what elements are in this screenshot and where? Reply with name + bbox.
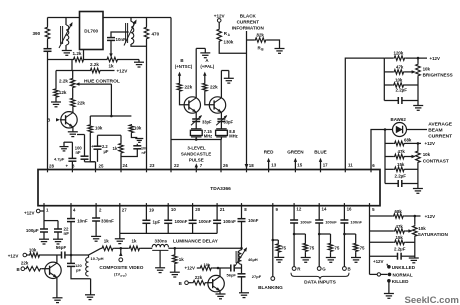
svg-text:B: B — [17, 267, 20, 272]
svg-text:B: B — [348, 267, 351, 272]
svg-text:+: + — [91, 144, 94, 149]
wire 10nF top hook — [111, 32, 129, 38]
svg-text:10k: 10k — [134, 126, 142, 131]
potentiometer 10k BRIGHTNESS — [416, 63, 421, 77]
wire — [90, 279, 92, 295]
transistor Q2 NTSC — [184, 97, 200, 113]
wire — [114, 247, 128, 249]
svg-text:GREEN: GREEN — [287, 150, 304, 155]
wire Q5 emitter — [219, 291, 221, 294]
wire hue pot top — [72, 71, 74, 78]
input arrow A — [204, 74, 206, 83]
resistor 75 G — [319, 233, 330, 235]
wire — [131, 134, 137, 138]
svg-text:HUE CONTROL: HUE CONTROL — [84, 78, 120, 84]
capacitor 100nF right — [136, 144, 138, 146]
svg-text:DATA INPUTS: DATA INPUTS — [304, 279, 336, 285]
terminal BLANKING — [271, 277, 275, 281]
pin stub — [167, 203, 169, 206]
svg-text:SATURATION: SATURATION — [418, 232, 449, 237]
wire — [343, 223, 345, 267]
node wire pin18 — [246, 31, 248, 170]
pin stub — [95, 203, 97, 206]
svg-text:1k: 1k — [132, 238, 137, 243]
pin stub — [145, 203, 147, 206]
svg-text:+12V: +12V — [425, 141, 436, 146]
pin stub — [344, 170, 346, 173]
svg-text:TDA3366: TDA3366 — [210, 186, 231, 192]
wire pin22 vertical — [170, 18, 172, 170]
capacitor 56pF drive2 — [230, 265, 232, 272]
resistor 15k saturation — [370, 241, 394, 243]
transistor Q5 — [208, 275, 224, 291]
ground 4.7uF — [63, 142, 65, 147]
ground row1 — [138, 60, 140, 63]
wire — [47, 40, 49, 48]
resistor 10k brightness — [384, 84, 393, 86]
svg-text:nF: nF — [64, 231, 70, 236]
capacitor 2.2uF brightness — [384, 100, 398, 102]
svg-text:SANDCASTLE: SANDCASTLE — [181, 152, 211, 157]
svg-text:10nF: 10nF — [248, 218, 259, 223]
svg-text:100nF: 100nF — [199, 219, 212, 224]
wire pin2 — [95, 206, 97, 218]
svg-text:22k: 22k — [185, 84, 193, 89]
resistor 47k contrast — [385, 156, 394, 158]
saturation right rail — [414, 216, 416, 225]
wire Q1 collector — [72, 108, 74, 113]
wire pin24 — [120, 154, 122, 170]
wire Q2 emitter — [195, 112, 197, 118]
small ground — [135, 138, 143, 140]
svg-text:PULSE: PULSE — [189, 158, 204, 163]
svg-text:22k: 22k — [195, 275, 203, 280]
svg-text:B: B — [179, 281, 182, 286]
svg-text:15k: 15k — [397, 162, 405, 167]
capacitor 100nF G — [315, 219, 323, 221]
wire pin10 — [167, 206, 169, 220]
crystal 8.8MHz — [216, 128, 227, 130]
svg-text:24: 24 — [123, 163, 128, 168]
svg-text:47k: 47k — [398, 149, 406, 154]
svg-text:2.2µF: 2.2µF — [394, 246, 406, 251]
svg-text:100µF: 100µF — [26, 228, 39, 233]
wire — [95, 221, 97, 236]
wire pin26 — [220, 140, 222, 170]
capacitor 120pF — [70, 255, 72, 263]
svg-text:BRIGHTNESS: BRIGHTNESS — [423, 72, 453, 77]
transistor Q1 hue — [61, 112, 77, 128]
svg-text:27: 27 — [122, 208, 127, 213]
resistor 75 B — [344, 233, 355, 235]
wire Q1 emitter — [72, 127, 74, 132]
switch UNKILLED — [387, 265, 391, 269]
resistor 10k drive2 — [199, 266, 212, 271]
ground contrast — [413, 188, 423, 190]
svg-text:130k: 130k — [224, 40, 234, 45]
svg-text:10nF: 10nF — [77, 219, 88, 224]
pin13 arrow — [268, 161, 270, 170]
resistor 390 — [45, 26, 50, 40]
terminal B — [343, 267, 347, 271]
wire — [205, 92, 214, 105]
svg-text:100nF: 100nF — [300, 219, 312, 224]
ground Q5 — [216, 293, 226, 295]
svg-text:11: 11 — [348, 163, 353, 168]
resistor 22k drive2 — [192, 280, 207, 285]
svg-text:46µH: 46µH — [248, 257, 258, 262]
variable inductor L2 — [130, 18, 132, 22]
pin stub — [220, 170, 222, 173]
wire — [71, 266, 91, 278]
variable inductor L1 — [65, 18, 67, 26]
row2 riser — [71, 60, 73, 71]
wire — [65, 45, 67, 50]
svg-text:DL700: DL700 — [84, 29, 98, 34]
svg-text:nF: nF — [76, 150, 82, 155]
svg-text:CURRENT: CURRENT — [428, 134, 452, 140]
svg-text:1k: 1k — [113, 146, 118, 151]
wire pin8 — [241, 206, 243, 219]
ground 27pF — [239, 292, 249, 294]
svg-text:47k: 47k — [396, 64, 404, 69]
resistor 470 — [146, 18, 148, 27]
resistor 22k hue — [72, 89, 74, 98]
svg-text:BLUE: BLUE — [314, 150, 327, 155]
svg-text:330ns: 330ns — [155, 238, 168, 243]
wire pin 16 — [343, 206, 345, 220]
trimmer capacitor 33pF 2 — [217, 118, 225, 120]
svg-text:+12V: +12V — [430, 56, 441, 61]
ground 75 R — [304, 252, 306, 257]
svg-text:(+PAL): (+PAL) — [200, 64, 214, 69]
wire left column top — [47, 18, 49, 27]
capacitor 100nF left — [77, 134, 85, 136]
inductor 10.7uH — [88, 255, 90, 258]
svg-text:2.2µF: 2.2µF — [395, 173, 407, 178]
wire RA to node — [219, 43, 246, 54]
svg-text:14: 14 — [322, 207, 327, 212]
pin stub — [241, 203, 243, 206]
svg-text:56pF: 56pF — [56, 245, 67, 250]
ground 75 blanking — [277, 253, 279, 257]
svg-text:10k: 10k — [418, 226, 426, 231]
capacitor 10nF — [107, 37, 115, 39]
svg-text:CONTRAST: CONTRAST — [423, 158, 449, 163]
svg-text:100nF: 100nF — [223, 219, 236, 224]
resistor 68k saturation — [370, 215, 393, 217]
wire — [293, 223, 295, 267]
wire — [47, 51, 49, 59]
svg-text:27pF: 27pF — [252, 274, 262, 279]
pin stub — [370, 170, 372, 173]
switch KILLED — [387, 279, 391, 283]
resistor 68k contrast — [385, 142, 394, 144]
svg-text:19: 19 — [149, 208, 154, 213]
inner loop top — [98, 134, 122, 136]
wire — [85, 59, 107, 61]
wire — [97, 149, 99, 162]
wire to +12V — [406, 57, 427, 59]
transistor Q4 — [45, 262, 61, 278]
row1 wire — [48, 59, 73, 61]
resistor 22k PAL — [203, 83, 208, 93]
svg-text:470: 470 — [152, 32, 160, 37]
svg-text:21: 21 — [220, 207, 225, 212]
wire pin1 — [43, 206, 45, 221]
svg-text:+12V: +12V — [8, 254, 19, 259]
wire pin 12 — [293, 206, 295, 220]
svg-text:10: 10 — [171, 207, 176, 212]
ground 10.7uH — [85, 294, 95, 296]
ground osc2 — [228, 71, 230, 79]
resistor 1k lum1 — [101, 246, 114, 251]
decoupling rail — [120, 232, 217, 234]
svg-text:COMPOSITE VIDEO: COMPOSITE VIDEO — [99, 265, 143, 270]
svg-text:56pF: 56pF — [227, 272, 237, 277]
ground 100uF — [43, 232, 45, 239]
svg-text:330nF: 330nF — [101, 219, 114, 224]
svg-text:390: 390 — [33, 31, 41, 36]
svg-text:75: 75 — [360, 245, 365, 250]
svg-text:NORMAL: NORMAL — [393, 272, 413, 277]
resistor 47k saturation — [370, 230, 394, 232]
svg-text:+: + — [66, 163, 69, 168]
svg-text:+12V: +12V — [24, 210, 35, 215]
trimmer resistor 1k — [106, 57, 119, 62]
svg-text:22: 22 — [174, 163, 179, 168]
resistor 1k lum2 — [128, 246, 140, 251]
svg-text:100nF: 100nF — [325, 219, 337, 224]
ground switch — [384, 293, 394, 295]
wire top rail — [48, 17, 80, 19]
wire — [267, 40, 280, 48]
wire — [195, 122, 197, 129]
wire diode out — [407, 129, 428, 131]
svg-text:1k: 1k — [179, 257, 184, 262]
potentiometer 2.2k HUE — [70, 78, 75, 89]
terminal G — [317, 267, 321, 271]
svg-text:MHz: MHz — [204, 134, 212, 139]
svg-text:+12V: +12V — [117, 68, 129, 73]
svg-text:+12V: +12V — [373, 259, 384, 264]
resistor 75 R — [294, 233, 305, 235]
row2 wire — [56, 70, 90, 72]
wire pin27 — [119, 206, 121, 234]
svg-text:BLANKING: BLANKING — [258, 285, 283, 290]
svg-text:10.7µH: 10.7µH — [91, 256, 104, 261]
resistor 120k — [384, 57, 393, 59]
resistor 75 blanking — [273, 239, 279, 241]
pin stub — [320, 170, 322, 173]
wire Q3 collector — [220, 71, 222, 98]
capacitor under 390 — [44, 48, 52, 50]
svg-text:33pF: 33pF — [224, 120, 234, 125]
svg-text:10k: 10k — [204, 262, 211, 267]
wire — [167, 223, 169, 233]
capacitor 330nF — [92, 217, 100, 219]
resistor 47k brightness — [384, 71, 393, 73]
pin7 arrow — [195, 166, 197, 170]
wire pin20 — [192, 206, 194, 220]
terminal R — [292, 267, 296, 271]
svg-text:10k: 10k — [395, 78, 403, 83]
resistor 1k pin24 — [120, 135, 122, 142]
svg-text:22k: 22k — [77, 100, 85, 105]
ground Q1 — [68, 131, 78, 133]
svg-text:1µF: 1µF — [153, 220, 161, 225]
capacitor 10nF pin4 — [67, 218, 75, 220]
wire to +12V — [101, 70, 115, 72]
svg-text:nF: nF — [142, 151, 147, 155]
wire pin5 rail — [369, 206, 371, 275]
svg-text:100nF: 100nF — [175, 219, 188, 224]
trimmer capacitor 33pF 1 — [192, 118, 200, 120]
pin stub — [192, 203, 194, 206]
capacitor 100nF pin10 — [164, 219, 172, 221]
pin stub — [146, 170, 148, 173]
wire Q3 emitter — [220, 112, 222, 118]
pin stub — [369, 203, 371, 206]
svg-text:120k: 120k — [394, 51, 404, 56]
wire — [90, 134, 95, 162]
svg-text:INFORMATION: INFORMATION — [232, 26, 265, 31]
transistor Q3 PAL — [209, 97, 225, 113]
node wire 10k pair — [90, 115, 131, 117]
svg-text:26: 26 — [223, 163, 228, 168]
ground 75 G — [330, 252, 332, 257]
capacitor 10nF pin8 — [238, 218, 246, 220]
switch NORMAL — [388, 273, 392, 277]
resistor 22k NTSC — [177, 83, 182, 93]
resistor 2.2k row2 — [90, 68, 102, 73]
pin stub — [120, 170, 122, 173]
svg-text:UNKILLED: UNKILLED — [392, 265, 416, 270]
pin stub — [119, 203, 121, 206]
wire — [70, 222, 72, 255]
svg-text:68k: 68k — [404, 138, 412, 143]
pin stub — [272, 203, 274, 206]
svg-text:13: 13 — [271, 163, 276, 168]
brightness left rail — [383, 58, 385, 100]
svg-text:12k: 12k — [59, 90, 67, 95]
IC U1 TDA3366 box — [38, 170, 380, 206]
pin stub — [195, 170, 197, 173]
contrast right rail — [417, 143, 419, 150]
svg-text:+12V: +12V — [214, 13, 226, 18]
svg-text:AVERAGE: AVERAGE — [428, 122, 453, 128]
pin stub — [293, 203, 295, 206]
wire pin19 — [145, 206, 147, 220]
pin stub — [246, 170, 248, 173]
svg-text:75: 75 — [309, 245, 314, 250]
svg-text:25: 25 — [99, 163, 104, 168]
svg-text:28: 28 — [49, 163, 54, 168]
brightness right rail — [417, 58, 419, 63]
svg-text:1k: 1k — [109, 63, 115, 68]
resistor 12k — [54, 88, 59, 98]
svg-text:75: 75 — [281, 245, 286, 250]
svg-text:+12V: +12V — [425, 214, 436, 219]
pin stub — [268, 170, 270, 173]
svg-text:3-LEVEL: 3-LEVEL — [187, 145, 206, 150]
pin15 arrow — [294, 161, 296, 170]
pin stub — [43, 203, 45, 206]
wire — [119, 59, 140, 61]
resistor 10k drive1 — [27, 254, 29, 256]
switch pole — [370, 273, 378, 275]
svg-text:pF: pF — [76, 267, 81, 272]
svg-text:+12V: +12V — [185, 266, 196, 271]
wire — [195, 137, 197, 140]
resistor RA 130k — [218, 22, 220, 28]
wire pin6 riser — [371, 130, 393, 170]
svg-text:12: 12 — [296, 207, 301, 212]
wire — [145, 223, 147, 233]
wire Q2 collector — [195, 48, 197, 97]
svg-text:33pF: 33pF — [202, 120, 212, 125]
svg-text:1k: 1k — [104, 238, 109, 243]
svg-text:15k: 15k — [396, 235, 404, 240]
svg-text:BAW62: BAW62 — [391, 117, 407, 122]
svg-text:18: 18 — [249, 163, 254, 168]
wire Q5 collector — [219, 268, 221, 276]
potentiometer 10k CONTRAST — [416, 150, 421, 164]
wire pin9 — [272, 206, 274, 277]
capacitor 2.2uF contrast — [385, 183, 398, 185]
ground 22nF — [57, 232, 59, 239]
variable inductor 46uH — [241, 248, 243, 250]
wire — [141, 247, 153, 249]
delay line 330ns — [152, 244, 168, 247]
capacitor 100uF — [43, 221, 45, 229]
wire — [220, 122, 222, 129]
crystal rail — [171, 139, 221, 141]
pin stub — [318, 203, 320, 206]
diode BAW62 — [393, 123, 407, 137]
pin17 arrow — [320, 161, 322, 170]
pin stub — [47, 170, 49, 173]
wire pin 14 — [318, 206, 320, 220]
svg-text:BLACK: BLACK — [240, 14, 257, 19]
resistor 15k contrast — [385, 168, 394, 170]
potentiometer 10k SATURATION — [413, 225, 418, 238]
resistor 10k right — [129, 124, 134, 134]
capacitor 2.2uF saturation — [370, 255, 398, 257]
wire Q4 collector — [56, 255, 58, 263]
ground delay — [155, 267, 165, 269]
hue divider wire — [55, 71, 57, 89]
wire — [216, 223, 218, 233]
capacitor 100nF pin20 — [189, 219, 197, 221]
ground RB — [275, 48, 285, 50]
ground 330nF — [91, 235, 101, 237]
svg-text:SeekIC.com: SeekIC.com — [405, 295, 459, 305]
ground 1k shunt — [174, 264, 176, 272]
ground 12k — [55, 98, 57, 102]
pin stub — [70, 203, 72, 206]
svg-text:10k: 10k — [29, 248, 37, 253]
svg-text:4.7µF: 4.7µF — [54, 157, 65, 162]
input arrow B — [179, 74, 181, 83]
resistor 10k left — [89, 116, 91, 124]
wire DL700 bottom drop — [83, 50, 85, 60]
wire — [241, 264, 243, 273]
svg-text:(+NTSC): (+NTSC) — [175, 64, 193, 69]
capacitor 100nF R — [290, 219, 298, 221]
wire to 1k — [71, 254, 89, 256]
svg-text:G: G — [322, 267, 326, 272]
